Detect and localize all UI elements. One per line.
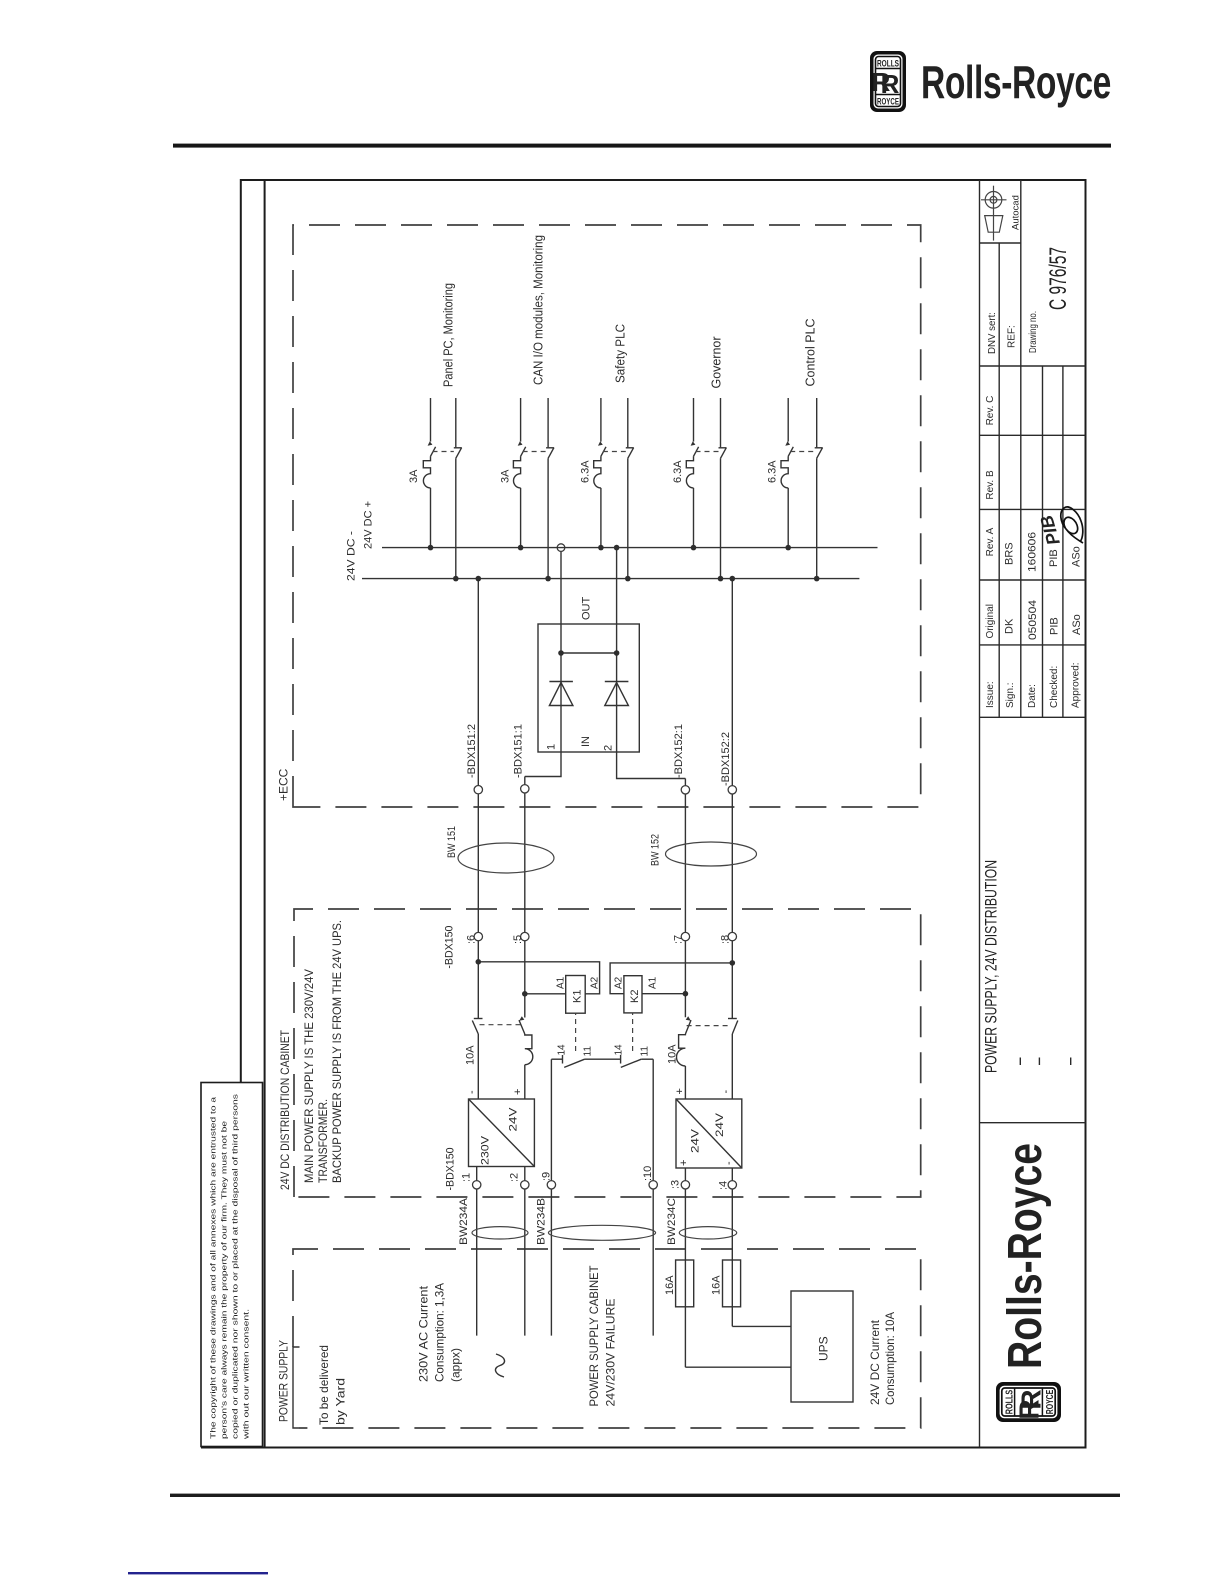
svg-text:24V: 24V <box>690 1128 702 1153</box>
svg-text:16A: 16A <box>711 1275 723 1295</box>
svg-text:-BDX150: -BDX150 <box>445 1148 457 1191</box>
fuse F4 16A <box>723 1260 741 1307</box>
junction feeder5 on +bus <box>785 545 791 551</box>
svg-text:Control PLC: Control PLC <box>803 319 818 387</box>
wire feeder4 minus <box>720 398 722 579</box>
wire feeder5 minus <box>816 398 818 579</box>
svg-text:A2: A2 <box>614 976 625 989</box>
pin A1 of K1 <box>525 993 566 995</box>
svg-text:1: 1 <box>546 744 558 750</box>
Rolls-Royce badge logo (header) <box>870 51 906 112</box>
wire supply2 minus (:8) <box>731 579 733 1099</box>
link K2 coil to contact (dashed) <box>632 1013 634 1051</box>
svg-text::1: :1 <box>461 1173 473 1182</box>
svg-text::9: :9 <box>541 1172 553 1181</box>
svg-text::7: :7 <box>672 935 684 944</box>
wire UPS - feed (to :4) <box>731 1168 733 1326</box>
breaker 10A T1 main contact <box>519 1020 525 1034</box>
svg-text:PIB: PIB <box>1049 617 1061 635</box>
cabinet outline +ECC (dashed) <box>293 225 921 807</box>
terminal -BDX150:6 <box>474 932 482 940</box>
svg-text:230V AC Current: 230V AC Current <box>417 1285 431 1382</box>
breaker F5 6.3A main contact <box>788 447 793 457</box>
svg-text:K1: K1 <box>572 990 584 1003</box>
breaker F4 pole link (dashed) <box>696 451 719 453</box>
terminal OUT on +bus <box>557 544 565 552</box>
cable BW234C oval <box>679 1227 736 1239</box>
wire 230V AC line N to terminal :2 <box>524 1167 526 1336</box>
terminal -BDX150:8 <box>728 932 736 940</box>
svg-text:(appx): (appx) <box>449 1348 463 1382</box>
wire feeder1 plus <box>423 398 430 548</box>
svg-text:Checked:: Checked: <box>1049 666 1060 708</box>
svg-text:BACKUP POWER SUPPLY IS FROM TH: BACKUP POWER SUPPLY IS FROM THE 24V UPS. <box>330 920 344 1183</box>
wire jog supply2 plus into diode box <box>617 752 686 779</box>
pin A2 of K2 <box>610 963 732 994</box>
svg-text:To be delivered: To be delivered <box>317 1345 331 1425</box>
svg-text:Sign.:: Sign.: <box>1005 682 1016 708</box>
relay coil K1 <box>566 976 586 1014</box>
junction K1-A2 on :6 wire <box>476 959 482 965</box>
pin A2 of K1 <box>478 962 599 994</box>
dash entries in title cell <box>1019 1058 1021 1066</box>
svg-text::2: :2 <box>509 1173 521 1182</box>
svg-text:Issue:: Issue: <box>985 681 996 708</box>
diode D1 <box>549 683 573 706</box>
solid heading segment of POWER SUPPLY box <box>293 1347 300 1428</box>
svg-text:A1: A1 <box>556 976 567 989</box>
terminal -BDX150:5 <box>521 932 529 940</box>
svg-text:24V DC DISTRIBUTION CABINET: 24V DC DISTRIBUTION CABINET <box>278 1029 292 1190</box>
terminal -BDX152:2 <box>728 786 736 794</box>
fuse F3 16A <box>676 1260 694 1307</box>
title block grid <box>979 180 981 1448</box>
svg-text::3: :3 <box>670 1180 682 1189</box>
breaker F2 pole link (dashed) <box>523 451 547 453</box>
svg-text:BW234B: BW234B <box>536 1198 548 1245</box>
cable BW 152 oval <box>666 842 757 866</box>
svg-text:6.3A: 6.3A <box>767 460 779 483</box>
svg-text:R: R <box>881 69 900 99</box>
breaker F1 pole link (dashed) <box>433 451 454 453</box>
svg-text:Approved:: Approved: <box>1071 662 1082 708</box>
breaker T2 pole link (dashed) <box>687 1025 731 1027</box>
svg-text:Rolls-Royce: Rolls-Royce <box>921 56 1111 108</box>
junction feeder2 on +bus <box>518 545 524 551</box>
breaker 10A T2 pole2 contact <box>732 1021 738 1035</box>
svg-text:14: 14 <box>557 1044 568 1056</box>
svg-text:Safety PLC: Safety PLC <box>613 324 628 383</box>
svg-text:+: + <box>674 1088 686 1094</box>
svg-text:-BDX152:2: -BDX152:2 <box>720 732 732 786</box>
svg-text:-: - <box>723 1161 735 1165</box>
svg-text::10: :10 <box>642 1166 654 1181</box>
wire feeder3 minus <box>627 398 629 579</box>
svg-text:Rolls-Royce: Rolls-Royce <box>999 1143 1052 1369</box>
svg-text:230V: 230V <box>480 1135 492 1165</box>
wire 230V AC line L to terminal :1 <box>476 1167 478 1336</box>
breaker F3 6.3A main contact <box>601 447 606 457</box>
svg-text:24V DC +: 24V DC + <box>363 501 375 549</box>
junction feeder3 on -bus <box>625 576 631 582</box>
cable BW234A oval <box>472 1227 528 1239</box>
svg-text:Autocad: Autocad <box>1011 195 1022 230</box>
terminal -BDX152:1 <box>681 786 689 794</box>
svg-text:ASo: ASo <box>1071 614 1083 635</box>
svg-text:K2: K2 <box>629 990 641 1003</box>
breaker F4 pole2 contact <box>721 448 727 459</box>
terminal -BDX151:1 <box>521 785 529 793</box>
footer blue link line <box>128 1572 268 1574</box>
wire feeder2 plus <box>513 398 520 548</box>
svg-text:IN: IN <box>580 736 592 747</box>
svg-text::4: :4 <box>718 1181 730 1190</box>
junction link-D2 <box>614 650 620 656</box>
svg-text:Rev. C: Rev. C <box>985 396 996 426</box>
breaker F3 pole2 contact <box>628 448 634 459</box>
wire UPS drop - <box>732 1325 791 1327</box>
svg-text:11: 11 <box>583 1046 594 1057</box>
junction feeder3 on +bus <box>598 545 604 551</box>
junction K2-A2 on :8 wire <box>730 960 736 966</box>
cable BW234B oval <box>548 1225 655 1240</box>
wire feeder1 minus <box>455 398 457 579</box>
failure signal contact chain <box>551 1055 653 1064</box>
svg-text:-BDX150: -BDX150 <box>444 926 456 969</box>
breaker T1 pole link (dashed) <box>480 1024 524 1026</box>
svg-text:BW 151: BW 151 <box>446 826 458 858</box>
wire UPS drop + <box>685 1366 791 1368</box>
svg-text:+: + <box>512 1089 524 1095</box>
contact K1 aux 14-11 <box>564 1059 584 1067</box>
cabinet outline POWER SUPPLY (dashed) <box>293 1249 921 1428</box>
junction feeder1 on +bus <box>428 545 434 551</box>
breaker F5 pole2 contact <box>817 448 823 459</box>
breaker F4 6.3A main contact <box>694 447 699 457</box>
svg-text:10A: 10A <box>667 1044 679 1064</box>
svg-text:Governor: Governor <box>709 336 724 389</box>
svg-text:+: + <box>678 1160 690 1166</box>
bus 24V DC minus <box>362 578 859 580</box>
drawing frame border <box>201 180 1086 1448</box>
svg-text:11: 11 <box>640 1046 651 1057</box>
svg-text:DNV sert:: DNV sert: <box>987 312 998 354</box>
terminal -BDX150:4 <box>728 1181 736 1189</box>
svg-text:6.3A: 6.3A <box>580 460 592 483</box>
breaker F1 pole2 contact <box>456 448 462 459</box>
link K1 coil to contact (dashed) <box>575 1013 577 1051</box>
svg-text:Consumption: 10A: Consumption: 10A <box>883 1312 897 1405</box>
svg-text:POWER SUPPLY, 24V DISTRIBUTION: POWER SUPPLY, 24V DISTRIBUTION <box>983 860 1001 1073</box>
svg-text::6: :6 <box>465 935 477 944</box>
breaker 10A T2 main contact <box>685 1020 691 1034</box>
wire supply1 plus (:5) <box>525 777 533 1100</box>
junction feeder5 on -bus <box>814 576 820 582</box>
cabinet outline 24V DC DISTRIBUTION CABINET (dashed) <box>294 909 921 1197</box>
svg-text:with out our written consent.: with out our written consent. <box>242 1309 251 1440</box>
bus 24V DC plus <box>382 547 878 549</box>
junction K1-A1 on :5 wire <box>522 991 528 997</box>
footer rule <box>170 1494 1120 1497</box>
diode redundancy module U1 <box>538 624 639 752</box>
svg-text::8: :8 <box>719 935 731 944</box>
svg-text:24V DC Current: 24V DC Current <box>868 1319 882 1405</box>
wire failure signal b (to :10) <box>652 1059 654 1335</box>
svg-text::5: :5 <box>512 935 524 944</box>
breaker F3 pole link (dashed) <box>603 451 626 453</box>
svg-text:Rev. A: Rev. A <box>985 527 996 556</box>
svg-text:16A: 16A <box>664 1275 676 1295</box>
copyright notice box <box>201 1083 263 1447</box>
breaker F2 3A main contact <box>521 447 526 457</box>
wire supply1 minus (:6) <box>477 579 479 1099</box>
svg-text:by Yard: by Yard <box>334 1378 348 1425</box>
terminal -BDX150:7 <box>681 932 689 940</box>
Rolls-Royce badge logo (title block) <box>996 1382 1061 1422</box>
svg-text:A2: A2 <box>590 976 601 989</box>
svg-text:TRANSFORMER.: TRANSFORMER. <box>316 1099 330 1183</box>
svg-text:-BDX151:1: -BDX151:1 <box>512 724 524 778</box>
converter T1 230V/24V <box>469 1099 535 1167</box>
terminal -BDX151:2 <box>474 786 482 794</box>
junction feeder4 on +bus <box>691 545 697 551</box>
junction D2 line on +bus <box>614 545 620 551</box>
wire failure signal a (to :9) <box>550 1059 552 1335</box>
svg-text:UPS: UPS <box>817 1336 831 1361</box>
first angle projection symbol <box>981 186 1007 241</box>
svg-text:ASo: ASo <box>1071 546 1083 567</box>
junction supply1 minus on -bus <box>476 576 482 582</box>
header rule <box>173 144 1111 148</box>
junction K2-A1 on :7 wire <box>683 991 689 997</box>
wire feeder4 plus <box>686 398 693 548</box>
breaker F2 pole2 contact <box>548 448 554 459</box>
converter T2 24V/24V <box>676 1099 742 1168</box>
breaker F5 pole link (dashed) <box>790 451 815 453</box>
svg-text:ROYCE: ROYCE <box>1045 1390 1056 1415</box>
junction supply2 minus on -bus <box>730 576 736 582</box>
svg-text:24V/230V FAILURE: 24V/230V FAILURE <box>604 1299 618 1407</box>
svg-text:person's care always remain th: person's care always remain the property… <box>220 1121 229 1439</box>
svg-text:POWER SUPPLY: POWER SUPPLY <box>277 1340 291 1422</box>
terminal -BDX150:3 <box>681 1181 689 1189</box>
svg-text:POWER SUPPLY CABINET: POWER SUPPLY CABINET <box>587 1265 601 1407</box>
svg-text:A1: A1 <box>648 976 659 989</box>
svg-text:3A: 3A <box>408 469 420 483</box>
svg-text:-: - <box>466 1090 478 1094</box>
svg-text:DK: DK <box>1004 618 1016 634</box>
pin A1 of K2 <box>642 993 685 995</box>
svg-text:14: 14 <box>614 1044 625 1056</box>
svg-text:REF:: REF: <box>1007 325 1018 348</box>
wire diode input 1 <box>560 548 562 752</box>
wire feeder2 minus <box>547 398 549 579</box>
svg-text:24V DC -: 24V DC - <box>346 531 358 581</box>
terminal -BDX150:2 <box>521 1181 529 1189</box>
junction feeder1 on -bus <box>453 576 459 582</box>
svg-text:PIB: PIB <box>1048 549 1060 567</box>
junction link-D1 <box>558 650 564 656</box>
svg-text:3A: 3A <box>500 469 512 483</box>
terminal -BDX150:1 <box>473 1181 481 1189</box>
wire diode input 2 <box>616 548 618 752</box>
wire jog supply1 plus into diode box <box>525 752 561 777</box>
junction feeder4 on -bus <box>718 576 724 582</box>
wire diode output link <box>561 652 617 654</box>
cable BW 151 oval <box>458 843 554 873</box>
svg-text:The copyright of these drawing: The copyright of these drawings and of a… <box>209 1096 218 1439</box>
svg-text:C 976/57: C 976/57 <box>1045 247 1072 310</box>
wire feeder5 plus <box>781 398 788 548</box>
svg-text:CAN I/O modules, Monitoring: CAN I/O modules, Monitoring <box>531 235 546 385</box>
svg-text:24V: 24V <box>508 1107 520 1132</box>
svg-text:-BDX152:1: -BDX152:1 <box>673 724 685 778</box>
frame inner margin line <box>264 180 266 1448</box>
svg-text:MAIN POWER SUPPLY IS THE 230V/: MAIN POWER SUPPLY IS THE 230V/24V <box>302 969 316 1183</box>
svg-text:6.3A: 6.3A <box>672 460 684 483</box>
svg-text:Consumption: 1,3A: Consumption: 1,3A <box>433 1283 447 1382</box>
svg-text:BW 152: BW 152 <box>650 834 662 866</box>
contact K2 aux 14-11 <box>621 1059 641 1067</box>
junction feeder2 on -bus <box>545 576 551 582</box>
svg-text:050504: 050504 <box>1027 600 1039 640</box>
signature scribble <box>1061 507 1083 543</box>
terminal -BDX150:10 <box>649 1181 657 1189</box>
svg-text:Rev. B: Rev. B <box>985 470 996 500</box>
svg-text:2: 2 <box>603 745 615 751</box>
svg-text:-BDX151:2: -BDX151:2 <box>466 724 478 778</box>
UPS unit <box>791 1291 853 1402</box>
wire supply2 plus (:7) <box>677 779 686 1100</box>
svg-text:R: R <box>1016 1389 1047 1409</box>
terminal -BDX150:9 <box>547 1181 555 1189</box>
wire UPS + feed (to :3) <box>684 1168 686 1367</box>
svg-text:Date:: Date: <box>1027 684 1038 708</box>
wire feeder3 plus <box>594 398 601 548</box>
svg-text:+ECC: +ECC <box>277 768 291 801</box>
svg-text:BW234C: BW234C <box>666 1198 678 1245</box>
relay coil K2 <box>624 976 642 1013</box>
svg-text:Panel PC, Monitoring: Panel PC, Monitoring <box>441 283 456 387</box>
svg-text:10A: 10A <box>465 1045 477 1065</box>
svg-text:BRS: BRS <box>1004 542 1016 565</box>
diode D2 <box>605 683 629 706</box>
AC source symbol ~ <box>495 1354 504 1377</box>
breaker 10A T1 pole2 contact <box>472 1021 478 1035</box>
svg-text:Drawing no.: Drawing no. <box>1028 311 1039 353</box>
svg-text:OUT: OUT <box>581 597 593 621</box>
breaker F1 3A main contact <box>431 447 436 457</box>
svg-text:-: - <box>720 1090 732 1094</box>
svg-text:copied or duplicated nor shown: copied or duplicated nor shown to or pla… <box>231 1094 240 1439</box>
svg-text:24V: 24V <box>714 1112 726 1137</box>
svg-text:BW234A: BW234A <box>458 1197 470 1245</box>
svg-text:Original: Original <box>985 604 996 638</box>
svg-text:160606: 160606 <box>1027 532 1039 572</box>
